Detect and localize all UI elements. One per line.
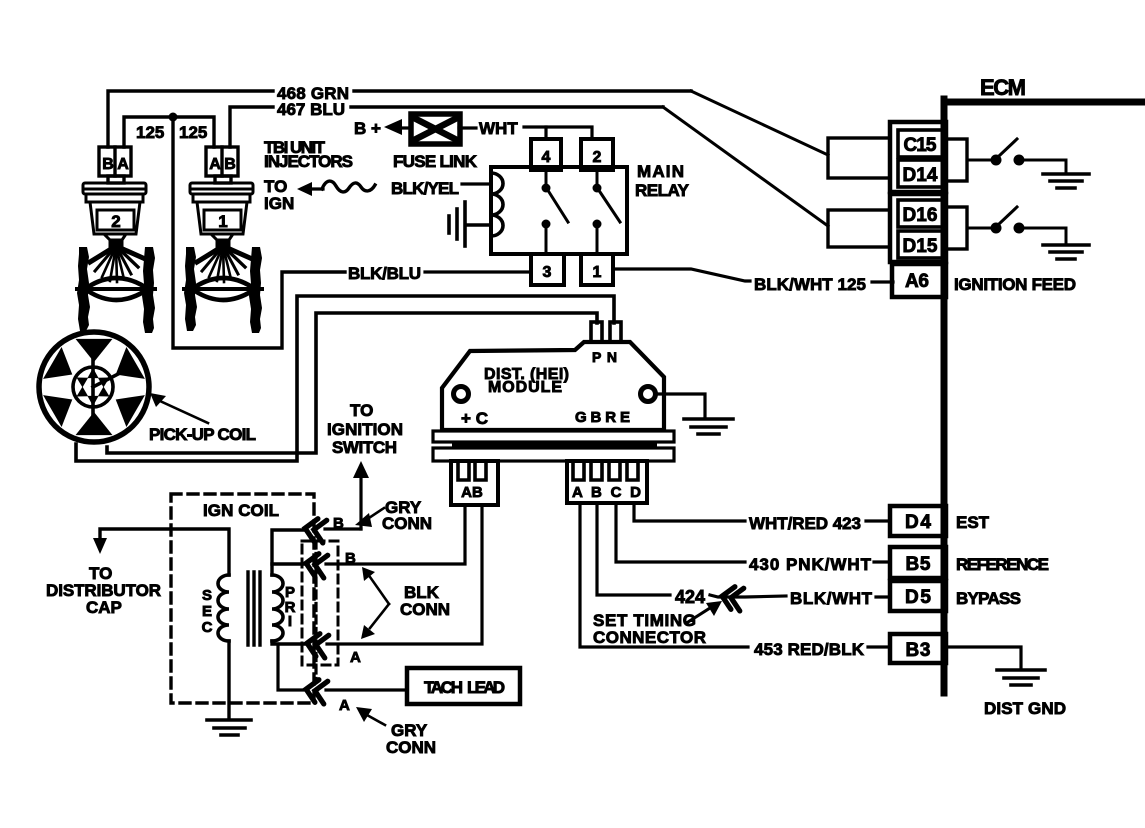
dist ground symbol xyxy=(997,670,1045,685)
ECM top bar xyxy=(944,99,1145,106)
injector 1 venturi lens xyxy=(184,278,262,300)
set timing connector chevron xyxy=(720,585,744,611)
label TO IGN xyxy=(264,177,294,213)
wire pick-up coil to module pin P xyxy=(107,313,597,453)
svg-text:INJECTORS: INJECTORS xyxy=(264,152,353,171)
wire BLK/YEL to relay coil xyxy=(462,182,491,185)
label DIST. (HEI) MODULE xyxy=(484,366,569,396)
svg-text:IGNITION FEED: IGNITION FEED xyxy=(954,275,1076,294)
ECM internal pin sleeve lower xyxy=(945,207,967,249)
wire 430 PNK/WHT to B5 xyxy=(874,560,890,563)
harness block lower (to D16/D15) xyxy=(828,210,890,247)
wire blk conn B to module connector AB pin A xyxy=(326,505,465,564)
svg-text:TACH: TACH xyxy=(424,678,463,697)
wire 468 GRN left segment from injector 2 pin B xyxy=(108,91,273,147)
label PRI vertical xyxy=(285,584,296,630)
svg-text:1: 1 xyxy=(218,212,227,231)
wire 467 BLU diagonal to ECM block xyxy=(663,107,828,226)
squiggle wire to BLK/YEL xyxy=(322,181,375,192)
coil ground symbol xyxy=(207,720,251,735)
svg-text:424: 424 xyxy=(675,587,705,607)
label TBI UNIT INJECTORS xyxy=(264,138,353,171)
label GRY CONN top xyxy=(382,498,432,533)
relay contact right xyxy=(593,170,621,254)
injector 1 throttle bore right bar xyxy=(249,247,262,333)
wire chevron to BLK/WHT xyxy=(710,595,786,597)
svg-text:FUSE LINK: FUSE LINK xyxy=(393,152,478,171)
ECM internal switch lower xyxy=(967,207,1066,243)
module base plate upper xyxy=(433,431,674,442)
injector 2 throttle bore left bar xyxy=(77,247,90,331)
label SEC vertical xyxy=(202,587,213,636)
main relay ground xyxy=(449,202,491,246)
ECM terminal C15 xyxy=(898,130,943,157)
arrow gry conn top xyxy=(355,508,384,527)
main relay coil xyxy=(491,173,503,236)
svg-text:4: 4 xyxy=(542,149,551,166)
svg-text:BLK/WHT 125: BLK/WHT 125 xyxy=(754,275,866,294)
wire fuse link to WHT xyxy=(459,126,476,129)
svg-text:+ C: + C xyxy=(461,409,488,428)
ABCD connector pin D xyxy=(627,463,638,480)
svg-text:A6: A6 xyxy=(905,271,929,292)
pick-up coil hub teeth xyxy=(77,368,110,406)
svg-text:DIST GND: DIST GND xyxy=(984,699,1066,718)
svg-text:C: C xyxy=(202,619,213,636)
wire ABCD pin C to 430 PNK/WHT xyxy=(616,503,745,562)
module base middle bar xyxy=(452,443,657,448)
ABCD connector pin C xyxy=(609,463,620,480)
junction dot on 125 wire xyxy=(169,113,178,122)
svg-text:CONN: CONN xyxy=(386,738,436,757)
module mounting hole left xyxy=(454,387,469,402)
svg-text:D4: D4 xyxy=(905,512,931,533)
svg-text:PICK-UP COIL: PICK-UP COIL xyxy=(149,425,256,444)
svg-text:G B R E: G B R E xyxy=(575,409,630,426)
svg-text:A: A xyxy=(350,649,361,666)
wire coil secondary to distributor cap xyxy=(100,529,229,575)
fuse link symbol xyxy=(411,114,460,144)
svg-text:P N: P N xyxy=(592,349,617,365)
ECM terminal A6 xyxy=(892,264,946,297)
svg-text:RELAY: RELAY xyxy=(635,181,690,200)
svg-text:IGNITION: IGNITION xyxy=(327,420,403,439)
wire from 125 junction down to BLK/BLU run xyxy=(173,117,345,348)
label GRY CONN bottom xyxy=(386,721,436,757)
ground for upper switch xyxy=(1043,174,1089,188)
ECM terminal D14 xyxy=(898,160,943,187)
svg-text:S: S xyxy=(202,587,212,604)
module pin P xyxy=(591,322,602,342)
svg-text:IGN: IGN xyxy=(264,194,294,213)
wire BLK/BLU to relay pin 3 xyxy=(425,270,531,273)
module pin N xyxy=(610,322,621,342)
svg-text:ECM: ECM xyxy=(980,75,1026,100)
wire 467 BLU left segment from injector 1 pin B xyxy=(230,107,273,147)
svg-text:125: 125 xyxy=(136,123,164,142)
ECM terminal D16 xyxy=(898,200,943,227)
svg-text:1: 1 xyxy=(593,264,602,281)
blk conn dashed box xyxy=(302,541,338,665)
arrow to IGN xyxy=(297,182,323,196)
svg-text:WHT: WHT xyxy=(479,119,518,138)
harness block upper (to C15/D14) xyxy=(828,138,890,178)
module mounting hole right xyxy=(641,387,656,402)
coil primary winding xyxy=(272,575,283,641)
pick-up coil outer ring xyxy=(39,332,149,442)
main relay pin 3 xyxy=(531,254,564,285)
svg-text:453 RED/BLK: 453 RED/BLK xyxy=(754,640,865,659)
ECM internal pin sleeve upper xyxy=(945,139,967,181)
injector 1 throttle bore left bar xyxy=(184,247,197,331)
injector 2 throttle bore right bar xyxy=(142,247,155,333)
wire ABCD pin B to 424 xyxy=(597,503,670,595)
svg-text:WHT/RED 423: WHT/RED 423 xyxy=(749,514,861,533)
wire relay pin 1 to BLK/WHT 125 xyxy=(613,269,750,281)
injector 1 spray xyxy=(197,246,250,282)
svg-text:C15: C15 xyxy=(904,135,937,156)
svg-text:BLK/YEL: BLK/YEL xyxy=(391,179,459,198)
wire WHT/RED 423 to D4 xyxy=(866,519,890,522)
wire 125 between injector pins A xyxy=(124,117,214,147)
AB connector pin B xyxy=(475,463,486,480)
ECM terminal D4 xyxy=(890,506,946,536)
svg-text:REFERENCE: REFERENCE xyxy=(956,555,1049,574)
svg-text:125: 125 xyxy=(179,123,207,142)
svg-text:MODULE: MODULE xyxy=(488,379,562,396)
wire coil primary bottom to blk conn A xyxy=(272,641,309,644)
wire 468 GRN diagonal to ECM block xyxy=(691,91,828,155)
wire pick-up coil to module pin N xyxy=(76,296,614,461)
svg-text:430 PNK/WHT: 430 PNK/WHT xyxy=(749,555,872,574)
svg-text:D5: D5 xyxy=(905,587,931,608)
svg-text:B3: B3 xyxy=(906,640,931,661)
arrow set timing to chevron xyxy=(688,601,722,622)
svg-text:B: B xyxy=(102,156,114,173)
wire ABCD pin A to 453 RED/BLK xyxy=(580,503,748,647)
svg-text:AB: AB xyxy=(461,484,483,501)
wire B3 to dist ground xyxy=(946,647,1021,669)
wire tap down to tach lead chevron xyxy=(278,644,308,690)
coil core xyxy=(248,572,260,645)
wire blk conn A to module connector AB pin B xyxy=(327,505,482,644)
injector 1 body xyxy=(190,183,253,246)
arrows blk conn xyxy=(361,567,389,639)
main relay body xyxy=(491,167,627,254)
blk conn chevron B xyxy=(304,552,328,578)
wire ABCD pin D to WHT/RED 423 xyxy=(634,503,745,521)
arrow up to ignition switch xyxy=(353,461,369,529)
injector 2 venturi lens xyxy=(77,278,155,300)
wire gry conn B to ignition switch riser xyxy=(325,527,361,530)
AB connector pin A xyxy=(458,463,469,480)
ground for lower switch xyxy=(1043,245,1089,259)
gry conn chevron B xyxy=(303,517,327,543)
main relay pin 4 xyxy=(531,139,561,170)
ECM internal switch upper xyxy=(967,139,1066,173)
wire WHT to relay pins 4 and 2 xyxy=(524,127,592,139)
injector 2 connector (pins B A) xyxy=(99,147,131,183)
tach lead box xyxy=(407,668,520,704)
wire 453 RED/BLK to B3 xyxy=(868,645,890,648)
relay contact left xyxy=(542,170,569,254)
arrow to B+ xyxy=(384,119,411,135)
wire coil primary top to B terminals xyxy=(272,530,306,575)
wire module hole to ground xyxy=(655,394,705,417)
svg-text:D16: D16 xyxy=(903,205,938,226)
pick-up coil hub xyxy=(73,356,120,419)
wire BLK/WHT 125 to A6 xyxy=(872,280,893,283)
svg-text:CONN: CONN xyxy=(382,514,432,533)
svg-text:E: E xyxy=(202,603,212,620)
injector 1 connector (pins A B) xyxy=(206,147,238,183)
ECM terminal D5 xyxy=(890,581,946,611)
main relay pin 1 xyxy=(581,254,613,285)
blk conn chevron A xyxy=(305,632,329,658)
blk conn internal dashed link xyxy=(314,541,317,681)
arrow gry conn bottom xyxy=(356,707,385,725)
wire BLK/WHT to D5 xyxy=(876,595,890,598)
label TO DISTRIBUTOR CAP xyxy=(46,564,161,617)
wire 467 BLU right segment xyxy=(351,105,663,108)
label TO IGNITION SWITCH xyxy=(327,401,403,457)
module base plate lower xyxy=(433,448,674,461)
svg-text:CONNECTOR: CONNECTOR xyxy=(593,628,706,647)
injector 2 spray xyxy=(90,246,143,282)
arrow to distributor cap xyxy=(93,538,107,554)
svg-text:CAP: CAP xyxy=(86,598,122,617)
svg-text:B +: B + xyxy=(354,119,381,138)
svg-text:BYPASS: BYPASS xyxy=(956,589,1021,608)
label BLK CONN xyxy=(400,583,450,619)
wire coil secondary to ground xyxy=(227,641,230,719)
coil secondary winding xyxy=(218,575,229,641)
svg-text:D15: D15 xyxy=(903,236,938,257)
svg-text:LEAD: LEAD xyxy=(467,678,505,697)
ABCD connector pin B xyxy=(591,463,602,480)
main relay pin 2 xyxy=(581,139,613,170)
svg-text:MAIN: MAIN xyxy=(637,162,684,181)
dist HEI module outline xyxy=(442,342,664,430)
svg-text:B5: B5 xyxy=(906,554,931,575)
svg-text:CONN: CONN xyxy=(400,600,450,619)
svg-text:D14: D14 xyxy=(903,165,938,186)
label SET TIMING CONNECTOR xyxy=(593,611,706,647)
wire gry conn A to tach lead xyxy=(326,688,407,691)
gry conn chevron A xyxy=(304,678,328,704)
pick-up coil rim teeth xyxy=(43,339,145,435)
ECM terminal D15 xyxy=(898,231,943,258)
ECM side bar xyxy=(941,99,948,693)
svg-text:A: A xyxy=(117,156,129,173)
svg-text:2: 2 xyxy=(593,149,602,166)
svg-text:IGN COIL: IGN COIL xyxy=(203,501,279,520)
svg-text:EST: EST xyxy=(956,513,990,532)
injector 2 body xyxy=(83,183,146,246)
svg-text:B: B xyxy=(224,156,236,173)
ignition coil dashed box xyxy=(171,494,314,703)
module 4-pin connector ABCD xyxy=(567,461,647,503)
svg-text:I: I xyxy=(288,613,292,630)
module 2-pin connector AB xyxy=(451,461,498,505)
ECM terminal B3 xyxy=(890,634,946,663)
svg-text:TO: TO xyxy=(350,401,373,420)
svg-text:467 BLU: 467 BLU xyxy=(277,100,345,119)
svg-text:A: A xyxy=(339,697,350,714)
ECM connector block C15/D14 outer xyxy=(890,122,946,192)
module ground symbol xyxy=(684,419,733,434)
svg-text:BLK/WHT: BLK/WHT xyxy=(790,589,873,608)
svg-text:A: A xyxy=(209,156,221,173)
wire primary tap to blk conn B xyxy=(272,562,308,565)
ABCD connector pin A xyxy=(573,463,584,480)
svg-text:SWITCH: SWITCH xyxy=(332,438,397,457)
wire 468 GRN right segment xyxy=(354,89,691,92)
svg-text:BLK/BLU: BLK/BLU xyxy=(348,264,421,283)
ECM terminal B5 xyxy=(890,547,946,578)
label MAIN RELAY xyxy=(635,162,690,200)
svg-text:2: 2 xyxy=(111,212,120,231)
ECM connector block D16/D15 outer xyxy=(890,194,946,262)
pick-up coil pointer arrow xyxy=(150,393,208,423)
svg-text:3: 3 xyxy=(543,264,552,281)
